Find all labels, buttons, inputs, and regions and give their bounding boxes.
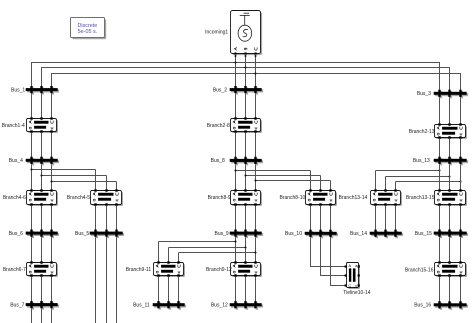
- svg-text:Bus_2: Bus_2: [213, 87, 227, 93]
- wire phase B Branch8-10/Bus_10 to Tieline10-14 port B: [321, 176, 346, 276]
- wire trunk phase C Branch9-11 to Bus_11: [178, 253, 180, 309]
- three-phase branch Branch2-13: [435, 123, 468, 139]
- wire tap phase C Bus_4 to Branch4-5: [52, 181, 117, 183]
- bus Bus_14: [370, 230, 403, 239]
- svg-text:Branch1-4: Branch1-4: [2, 123, 25, 129]
- bus Bus_15: [434, 230, 468, 239]
- bus Bus_12: [230, 301, 263, 310]
- three-phase branch Branch1-4: [27, 117, 59, 133]
- bus Bus_11: [153, 301, 186, 310]
- bus Bus_8: [230, 157, 263, 166]
- svg-text:C: C: [348, 284, 351, 288]
- svg-text:Bus_9: Bus_9: [215, 231, 229, 237]
- bus Bus_2: [230, 86, 263, 95]
- svg-text:Bus_8: Bus_8: [211, 158, 225, 164]
- svg-text:Bus_11: Bus_11: [133, 303, 150, 309]
- wire trunk phase A Branch9-11 to Bus_11: [158, 242, 160, 309]
- junction Bus_4 tap phase A: [30, 168, 32, 170]
- junction Bus_8 tap phase B: [244, 174, 246, 176]
- svg-text:Bus_14: Bus_14: [350, 231, 367, 237]
- wire tap phase B Bus_8 to Branch8-10: [246, 175, 321, 177]
- wire tap phase A Bus_8 to Branch8-10: [236, 170, 311, 172]
- wire tap phase B Bus_4 to Branch4-5: [42, 175, 107, 177]
- svg-text:Incoming1: Incoming1: [205, 29, 228, 35]
- wire phase C Branch8-10/Bus_10 to Tieline10-14 port C: [331, 181, 346, 286]
- svg-text:Branch4-5: Branch4-5: [67, 195, 90, 201]
- three-phase branch Branch8-10: [306, 189, 338, 206]
- wire trunk phase B Branch9-11 to Bus_11: [168, 248, 170, 309]
- bus Bus_7: [26, 301, 59, 310]
- svg-text:Branch15-16: Branch15-16: [405, 267, 434, 273]
- svg-text:Branch9-11: Branch9-11: [126, 267, 152, 273]
- bus Bus_13: [434, 157, 468, 166]
- junction Incoming1 feeder phase C: [254, 72, 256, 74]
- svg-text:Bus_12: Bus_12: [211, 303, 228, 309]
- source block Incoming1 (AC voltage source with neutral ground): [231, 11, 263, 58]
- discrete powergui block (Discrete 5e-05 s.): [71, 18, 107, 40]
- bus Bus_9: [230, 230, 263, 239]
- svg-text:Bus_6: Bus_6: [9, 231, 23, 237]
- wire trunk phase B Bus_3 to Bus_16 (via Branch2-13, Bus_13, Branch13-15, Bus_15, Branch15-16): [449, 92, 451, 309]
- wire tap phase C Bus_9 to Branch9-11: [179, 252, 256, 254]
- wire trunk phase A Bus_1 to bottom edge (via Branch1-4, Bus_4, Branch4-6, Bus_6, Branch6-7, Bus_7): [31, 87, 33, 323]
- svg-text:5e-05 s.: 5e-05 s.: [78, 29, 97, 35]
- wire trunk phase C Bus_1 to bottom edge (via Branch1-4, Bus_4, Branch4-6, Bus_6, Branch6-7, Bus_7): [51, 87, 53, 323]
- svg-text:Tieline10-14: Tieline10-14: [343, 290, 371, 296]
- wire trunk phase B Incoming1 to Bus_12 (via Bus_2, Branch2-8, Bus_8, Branch8-9, Bus_9, Branch9-12): [245, 54, 247, 308]
- junction Incoming1 feeder phase A: [234, 61, 236, 63]
- wire trunk phase A Branch13-14 to Bus_14: [375, 171, 377, 238]
- wire phase A Branch8-10/Bus_10 to Tieline10-14 port A: [311, 171, 346, 267]
- bus Bus_5: [90, 230, 124, 239]
- wire trunk phase B Branch4-5 to bottom edge via Bus_5: [106, 176, 108, 323]
- three-phase branch Branch8-9: [231, 189, 263, 206]
- svg-text:Branch8-10: Branch8-10: [279, 195, 305, 201]
- bus Bus_6: [26, 230, 59, 239]
- wire trunk phase C Branch4-5 to bottom edge via Bus_5: [116, 182, 118, 323]
- wire tap phase C Bus_8 to Branch8-10: [256, 180, 331, 182]
- wire tap phase A Bus_13 to Branch13-14: [376, 170, 440, 172]
- svg-text:c: c: [355, 284, 357, 288]
- wire trunk phase B Branch13-14 to Bus_14: [385, 177, 387, 238]
- three-phase branch Branch4-5: [91, 189, 124, 206]
- wire feeder phase A from Incoming1 to Bus_1/Bus_3: [32, 63, 440, 96]
- bus Bus_3: [434, 90, 468, 99]
- three-phase branch Branch6-7: [27, 261, 59, 277]
- three-phase branch Branch9-12: [231, 261, 263, 277]
- svg-text:Branch2-8: Branch2-8: [207, 123, 230, 129]
- svg-text:Branch9-12: Branch9-12: [206, 267, 232, 273]
- svg-text:Bus_16: Bus_16: [414, 303, 431, 309]
- bus Bus_4: [26, 157, 59, 166]
- junction Bus_9 tap phase A: [234, 240, 236, 242]
- svg-text:Bus_4: Bus_4: [9, 158, 23, 164]
- svg-text:Branch13-14: Branch13-14: [339, 195, 368, 201]
- wire trunk phase C Branch13-14 to Bus_14: [395, 182, 397, 238]
- svg-text:Discrete: Discrete: [78, 23, 98, 29]
- wire tap phase A Bus_9 to Branch9-11: [159, 241, 236, 243]
- svg-text:Bus_10: Bus_10: [285, 231, 302, 237]
- svg-text:Branch8-9: Branch8-9: [208, 195, 231, 201]
- junction Bus_9 tap phase C: [254, 251, 256, 253]
- tie switch Tieline10-14: [345, 263, 360, 290]
- three-phase branch Branch13-15: [435, 189, 468, 206]
- wire trunk phase B Bus_1 to bottom edge (via Branch1-4, Bus_4, Branch4-6, Bus_6, Branch6-7, Bus_7): [41, 87, 43, 323]
- svg-text:Bus_1: Bus_1: [11, 87, 25, 93]
- wire tap phase B Bus_13 to Branch13-14: [386, 176, 450, 178]
- wire trunk phase A Branch4-5 to bottom edge via Bus_5: [95, 170, 97, 323]
- junction Bus_9 tap phase B: [244, 246, 246, 248]
- svg-text:Branch6-7: Branch6-7: [3, 267, 26, 273]
- svg-text:Bus_5: Bus_5: [75, 231, 89, 237]
- junction Bus_8 tap phase A: [234, 169, 236, 171]
- wire trunk phase A Bus_3 to Bus_16 (via Branch2-13, Bus_13, Branch13-15, Bus_15, Branch15-16): [439, 92, 441, 309]
- svg-text:Bus_7: Bus_7: [10, 302, 24, 308]
- wire trunk phase C Bus_3 to Bus_16 (via Branch2-13, Bus_13, Branch13-15, Bus_15, Branch15-16): [460, 92, 462, 309]
- junction Bus_13 tap phase A: [438, 169, 440, 171]
- bus Bus_10: [305, 230, 338, 239]
- junction Bus_4 tap phase B: [40, 174, 42, 176]
- three-phase branch Branch2-8: [231, 117, 263, 133]
- svg-text:Branch2-13: Branch2-13: [409, 129, 435, 135]
- bus Bus_16: [434, 301, 468, 310]
- three-phase branch Branch4-6: [27, 189, 59, 206]
- junction Bus_13 tap phase C: [459, 180, 461, 182]
- three-phase branch Branch13-14: [371, 189, 403, 206]
- junction Bus_13 tap phase B: [448, 175, 450, 177]
- svg-text:Bus_13: Bus_13: [413, 158, 430, 164]
- svg-text:Branch13-15: Branch13-15: [406, 195, 435, 201]
- junction Incoming1 feeder phase B: [244, 66, 246, 68]
- wire tap phase C Bus_13 to Branch13-14: [396, 181, 461, 183]
- wire tap phase B Bus_9 to Branch9-11: [169, 247, 246, 249]
- svg-text:A: A: [349, 264, 352, 268]
- junction Bus_4 tap phase C: [50, 180, 52, 182]
- junction Bus_8 tap phase C: [254, 179, 256, 181]
- three-phase branch Branch15-16: [435, 261, 468, 277]
- bus Bus_1: [26, 86, 59, 95]
- svg-text:Bus_3: Bus_3: [417, 91, 431, 97]
- wire feeder phase C from Incoming1 to Bus_1/Bus_3: [52, 74, 461, 96]
- wire tap phase A Bus_4 to Branch4-5: [32, 169, 96, 171]
- wire trunk phase C Incoming1 to Bus_12 (via Bus_2, Branch2-8, Bus_8, Branch8-9, Bus_9, Branch9-12): [255, 54, 257, 308]
- svg-text:Branch4-6: Branch4-6: [3, 195, 26, 201]
- svg-text:Bus_15: Bus_15: [415, 231, 432, 237]
- three-phase branch Branch9-11: [154, 261, 186, 277]
- wire trunk phase A Incoming1 to Bus_12 (via Bus_2, Branch2-8, Bus_8, Branch8-9, Bus_9, Branch9-12): [235, 54, 237, 308]
- wire feeder phase B from Incoming1 to Bus_1/Bus_3: [42, 68, 450, 96]
